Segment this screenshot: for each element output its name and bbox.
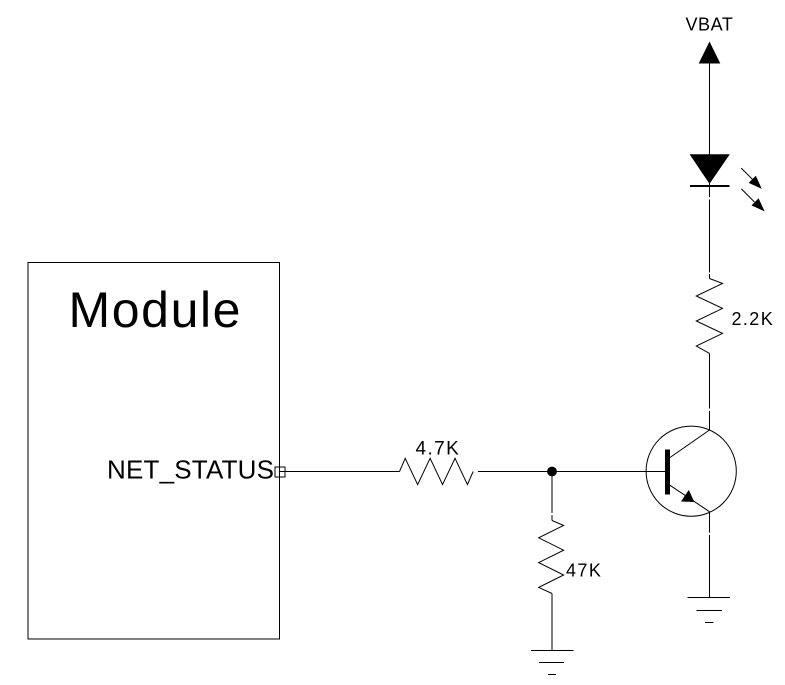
junction node — [547, 467, 557, 477]
wire emitter down to ground — [709, 512, 711, 598]
svg-text:2.2K: 2.2K — [732, 309, 775, 329]
wire VBAT to LED anode — [709, 64, 711, 155]
LED light arrow 1 — [741, 168, 762, 189]
pin NET_STATUS terminal square — [275, 467, 285, 477]
LED D1 body — [690, 155, 729, 184]
wire LED cathode down to resistor R3 — [709, 183, 711, 279]
wire resistor R1 to transistor base — [478, 471, 665, 473]
resistor R2 47K — [539, 521, 564, 594]
wire junction down to resistor R2 — [551, 472, 553, 521]
resistor R3 2.2K — [696, 279, 722, 354]
LED light arrow 2 — [741, 189, 764, 212]
svg-text:Module: Module — [69, 282, 243, 338]
wire pin to resistor R1 — [280, 471, 400, 473]
transistor Q1 — [646, 426, 736, 516]
ground symbol below R2 — [531, 651, 573, 675]
module U1 body — [28, 263, 280, 640]
svg-text:NET_STATUS: NET_STATUS — [107, 455, 274, 485]
LED D1 cathode bar — [690, 185, 729, 187]
svg-text:47K: 47K — [566, 561, 602, 581]
svg-text:4.7K: 4.7K — [416, 439, 461, 460]
power symbol VBAT arrow — [699, 42, 721, 64]
wire resistor R2 to ground — [551, 594, 553, 651]
svg-text:VBAT: VBAT — [686, 15, 734, 35]
resistor R1 4.7K — [400, 458, 474, 484]
ground symbol below Q1 emitter — [688, 598, 731, 623]
wire collector up to resistor R3 — [709, 353, 711, 430]
